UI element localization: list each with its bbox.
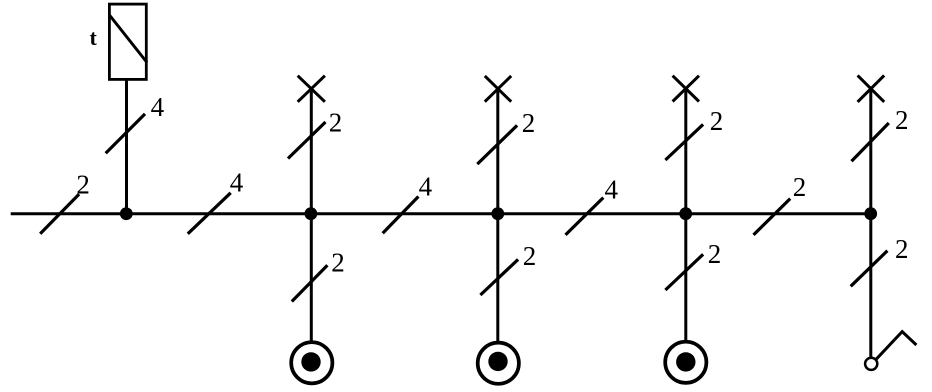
junction node 3	[491, 207, 504, 220]
conductor mark 4 on bus segment 4	[566, 198, 604, 235]
wire branch 4 vertical	[684, 89, 687, 342]
conductor mark 2 branch 3 lower	[480, 259, 518, 295]
wire branch 5 vertical	[869, 89, 872, 358]
conductor mark 4 on bus segment 2	[188, 193, 231, 234]
luminaire outlet branch 2	[291, 342, 332, 383]
junction node 5	[864, 207, 877, 220]
svg-text:2: 2	[523, 241, 537, 271]
svg-text:2: 2	[710, 106, 724, 136]
svg-text:4: 4	[151, 92, 165, 122]
svg-text:2: 2	[895, 234, 909, 264]
conductor mark 2 branch 4 lower	[665, 254, 703, 290]
wire bus horizontal	[11, 212, 871, 215]
luminaire outlet branch 3	[478, 343, 519, 384]
wire branch 2 vertical	[310, 89, 313, 342]
switch S lever	[876, 332, 916, 360]
svg-text:2: 2	[76, 170, 90, 200]
svg-text:4: 4	[605, 175, 619, 205]
conductor mark 2 branch 5 lower	[851, 251, 888, 287]
svg-text:2: 2	[895, 105, 909, 135]
lamp terminal X branch 3	[485, 76, 511, 102]
svg-text:2: 2	[793, 172, 807, 202]
svg-text:2: 2	[329, 107, 343, 137]
lamp terminal X branch 4	[673, 76, 699, 102]
lamp terminal X branch 2	[298, 76, 325, 102]
conductor mark 2 on bus segment 5	[754, 199, 791, 235]
conductor mark 4 on branch 1	[106, 114, 145, 153]
conductor mark 2 branch 4 upper	[665, 124, 703, 160]
thermostat box diagonal	[109, 15, 147, 63]
junction node 4	[679, 207, 692, 220]
junction node 2	[305, 207, 318, 220]
svg-text:2: 2	[708, 239, 722, 269]
luminaire outlet branch 4	[665, 342, 706, 383]
svg-text:t: t	[90, 25, 98, 50]
wire branch 3 vertical	[496, 89, 499, 342]
conductor mark 2 branch 5 upper	[852, 123, 889, 161]
conductor mark 2 branch 2 lower	[292, 265, 328, 301]
junction node 1	[120, 207, 133, 220]
svg-text:4: 4	[419, 172, 433, 202]
svg-text:4: 4	[230, 168, 244, 198]
conductor mark 4 on bus segment 3	[383, 197, 419, 234]
switch S circle	[865, 358, 877, 370]
svg-text:2: 2	[331, 247, 345, 277]
distribution board / thermostat box	[109, 4, 146, 79]
wire branch 1 drop from thermostat	[125, 80, 128, 214]
conductor mark 2 branch 2 upper	[288, 122, 326, 159]
conductor mark 2 branch 3 upper	[477, 125, 517, 164]
svg-text:2: 2	[522, 108, 536, 138]
lamp terminal X branch 5	[858, 75, 885, 102]
conductor mark 2 on bus segment 1	[40, 194, 79, 234]
